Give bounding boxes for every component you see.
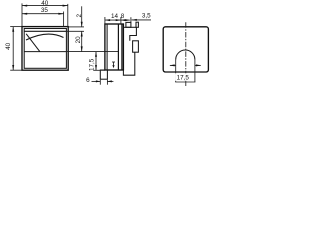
dim 40 top: label <box>41 0 49 7</box>
front view inner bezel square <box>24 29 66 69</box>
dim 20 right: dimension line <box>81 31 83 51</box>
dim 14: dimension line <box>105 19 121 21</box>
side view terminal screw <box>133 41 139 52</box>
dim 17,5 side: extension line bottom <box>94 69 105 71</box>
svg-text:20: 20 <box>75 36 82 44</box>
svg-text:6: 6 <box>86 77 90 84</box>
svg-text:17,5: 17,5 <box>177 75 190 82</box>
front view scale window top line <box>24 30 66 32</box>
dim 8: label <box>121 13 125 20</box>
dim 17,5 rear: extension lines <box>176 60 195 82</box>
dim 2 right: dimension line with arrow <box>81 6 83 27</box>
dim 17,5 side: label <box>89 58 96 71</box>
rear view centerline <box>185 22 187 86</box>
dim 2 right: label <box>76 13 83 17</box>
dim 17,5 rear: dimension line below label <box>175 81 195 83</box>
scale arc <box>26 34 64 40</box>
dim 3,5: label <box>142 12 151 19</box>
side view top block <box>126 22 131 27</box>
svg-text:40: 40 <box>41 0 49 7</box>
svg-text:40: 40 <box>5 42 12 50</box>
dim 17,5 rear: arrows <box>170 64 202 66</box>
side view top back screw <box>136 22 138 27</box>
shared extension line at window bottom level <box>67 51 118 53</box>
dim 8: dimension line <box>121 19 130 21</box>
dim 40 top: extension lines <box>22 3 68 26</box>
dim 35 top: label <box>41 7 49 14</box>
dim 14 and 8: extension lines <box>105 17 131 24</box>
side view case upper back <box>130 27 137 41</box>
side view panel thick bar <box>118 24 122 70</box>
needle <box>26 34 40 52</box>
svg-text:2: 2 <box>76 13 83 17</box>
dim 35 top: extension line right <box>63 12 65 27</box>
front view scale window bottom line <box>24 51 66 53</box>
rear view rounded square <box>163 27 208 72</box>
side view bottom stud <box>100 70 107 79</box>
dim 40 top: dimension line <box>22 5 68 7</box>
rear terminal arch <box>176 50 195 60</box>
marker arrow at stud <box>112 62 115 68</box>
dim 6: arrows <box>92 80 114 82</box>
dim 17,5 rear: label <box>175 73 191 81</box>
svg-text:3,5: 3,5 <box>142 12 151 19</box>
dim 3,5: arrow <box>132 19 151 21</box>
svg-text:8: 8 <box>121 13 125 20</box>
side view case top <box>123 26 136 28</box>
dim 40 left: dimension line <box>12 27 14 71</box>
side view case lower back <box>123 52 134 75</box>
dim 40 left: extension lines <box>10 27 21 71</box>
dim 2 right: extension lines <box>67 27 84 31</box>
dim 20 right: label <box>75 36 82 44</box>
dim 6: label <box>86 77 90 84</box>
dim 40 left: label <box>5 42 12 50</box>
side view bezel inner front line <box>106 24 108 70</box>
dim 17,5 side: dimension line <box>95 52 97 71</box>
svg-text:35: 35 <box>41 7 49 14</box>
svg-text:17,5: 17,5 <box>89 58 96 71</box>
side view bezel <box>105 24 124 70</box>
dim 6: extension lines <box>100 80 107 85</box>
front view outer square <box>22 27 68 71</box>
dim 14: label <box>111 13 119 20</box>
dim 35 top: dimension line <box>22 13 64 15</box>
svg-text:14: 14 <box>111 13 119 20</box>
